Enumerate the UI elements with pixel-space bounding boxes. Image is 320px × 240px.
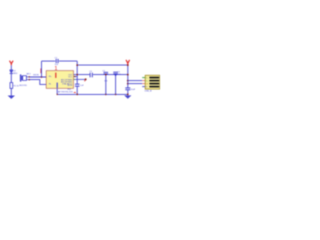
svg-text:D-: D- [146,77,148,79]
wire [10,88,12,95]
svg-text:104: 104 [104,80,107,82]
wire top loop vertical [41,61,43,77]
junction [41,76,43,78]
connector pin names [146,77,149,88]
capacitor C4 [115,74,117,94]
connector pads [149,77,159,88]
power flag (right) [126,60,130,65]
svg-text:R1 1k: R1 1k [14,85,19,87]
capacitor C6 (series) [90,73,92,78]
IC U1 body [46,71,73,89]
svg-text:MOSI: MOSI [67,85,72,87]
U1 pin 2 (green stub) [73,76,75,78]
power flag (left) [10,61,14,66]
connector pin stubs [142,77,145,79]
capacitor C2 [75,84,80,86]
connector J1 body [145,75,160,89]
LED D1 [10,70,13,74]
label D1 [13,71,18,75]
svg-text:MICIN: MICIN [33,75,39,77]
U1 pin names right [61,75,73,88]
svg-text:C3: C3 [102,70,104,72]
svg-text:IN-: IN- [49,84,52,86]
svg-text:USB_M: USB_M [145,91,152,93]
svg-text:104: 104 [117,74,120,76]
U1 pin 3 (green stub, stub wire) [73,78,75,80]
svg-text:RED: RED [13,73,18,75]
U1 bottom pin stub [56,88,58,94]
wire [10,74,12,83]
VCC bus vertical [127,65,129,95]
U1 pin names left [49,76,53,86]
ground rail [57,93,128,95]
microphone MK1 [20,74,27,81]
ground (right) [124,95,131,98]
capacitor C3 [105,74,107,94]
wire to connector pin2 [128,80,142,82]
no-connect dot [85,78,87,80]
svg-text:ATTINY85-20S: ATTINY85-20S [58,91,73,94]
resistor R1 [10,83,13,89]
wire top loop horizontal [42,60,56,62]
red pin number on wire [40,68,42,73]
U1 top pin mark (red) [55,73,57,78]
svg-text:PB5: PB5 [67,89,71,91]
capacitor C1 [56,59,58,63]
svg-text:10uF: 10uF [131,89,136,91]
wire mic pin2 to U1 [30,80,47,85]
wire mic pin1 to U1 [30,76,47,78]
capacitor C5 [125,88,130,90]
red pin number [84,80,86,81]
red mark [74,92,76,94]
svg-text:MIC9765: MIC9765 [19,85,27,87]
wire [10,65,12,70]
U1 pin stub right 1 / signal wire [73,74,128,76]
bus vertical right of U1 [76,61,78,94]
U1 bottom pin mark (blue) [56,83,58,88]
VCC wire [77,64,128,66]
wire to connector pin3 [128,83,142,85]
ground [8,96,15,99]
wire [59,60,77,62]
mic pin stubs [26,77,29,80]
svg-text:VCC: VCC [68,77,73,79]
